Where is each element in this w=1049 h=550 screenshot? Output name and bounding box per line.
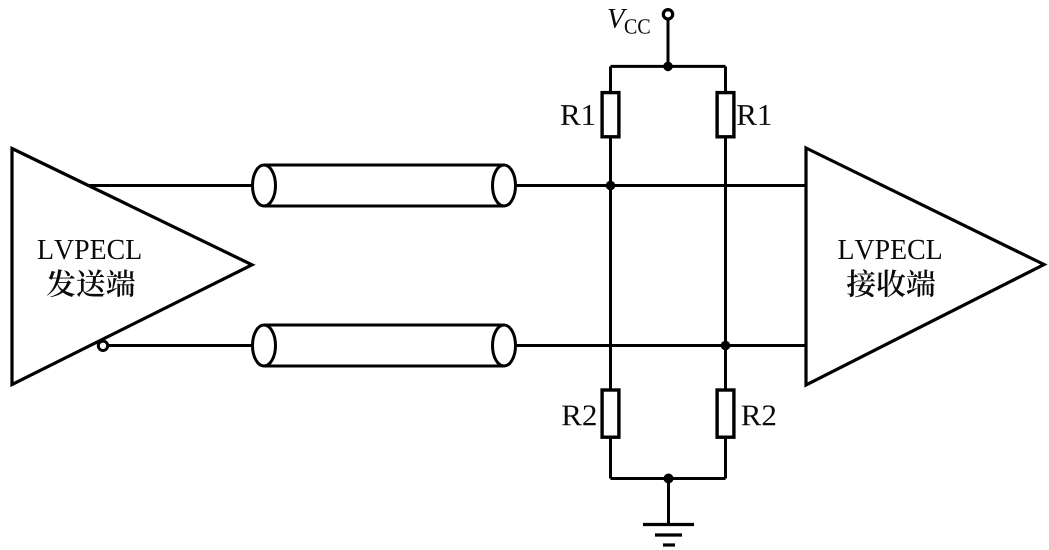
wire: Vcc rail (horizontal) xyxy=(611,65,726,68)
resistor R2a (left pull-down) xyxy=(602,390,619,437)
transmission line TL1 (top coax) xyxy=(253,165,516,206)
wire: right bus, Vcc rail to R1b xyxy=(724,66,727,92)
resistor R1a (left pull-up) xyxy=(602,93,619,137)
wire: top transmission line to receiver (through node A) xyxy=(515,184,807,187)
resistor R2b (right pull-down) xyxy=(717,390,734,437)
transmission line TL2 (bottom coax) xyxy=(253,325,516,366)
wire: right bus, R1b down across node B to R2b xyxy=(724,137,727,390)
wire: left bus, Vcc rail to R1a xyxy=(609,66,612,92)
label: R2 (left) xyxy=(562,405,595,425)
inverting output bubble of U1 xyxy=(98,341,107,350)
label: Vcc xyxy=(608,9,627,28)
label: U1 "LVPECL" xyxy=(38,240,141,260)
Vcc terminal (open circle) xyxy=(663,10,672,19)
label: R1 (left) xyxy=(561,105,594,125)
resistor R1b (right pull-up) xyxy=(717,93,734,137)
LVPECL receiver U2 triangle xyxy=(806,148,1044,385)
wire: left bus, R1a down across node A to R2a xyxy=(609,137,612,390)
label: U2 "LVPECL" xyxy=(838,240,941,260)
label: U1 "发送端" (transmitter) xyxy=(47,269,135,297)
junction: ground stem on ground rail xyxy=(664,474,674,484)
label: R1 (right) xyxy=(737,105,770,125)
LVPECL driver U1 triangle xyxy=(12,149,252,385)
junction: Vcc stem on Vcc rail xyxy=(663,62,673,72)
wire: driver top output to top transmission line xyxy=(88,184,254,187)
wire: Vcc terminal down to Vcc rail xyxy=(667,21,670,67)
ground symbol xyxy=(643,525,694,546)
wire: ground stem xyxy=(667,479,670,525)
wire: right bus, R2b to ground rail xyxy=(724,437,727,478)
wire: left bus, R2a to ground rail xyxy=(609,437,612,478)
wire: inverting bubble to bottom transmission line xyxy=(106,344,254,347)
junction: node B (right bus joins bottom signal) xyxy=(721,341,731,351)
wire: bottom transmission line to receiver (through node B) xyxy=(515,344,807,347)
label: R2 (right) xyxy=(742,405,775,425)
wire: ground rail (horizontal) xyxy=(611,477,726,480)
label: U2 "接收端" (receiver) xyxy=(847,269,935,297)
junction: node A (left bus joins top signal) xyxy=(606,181,616,191)
